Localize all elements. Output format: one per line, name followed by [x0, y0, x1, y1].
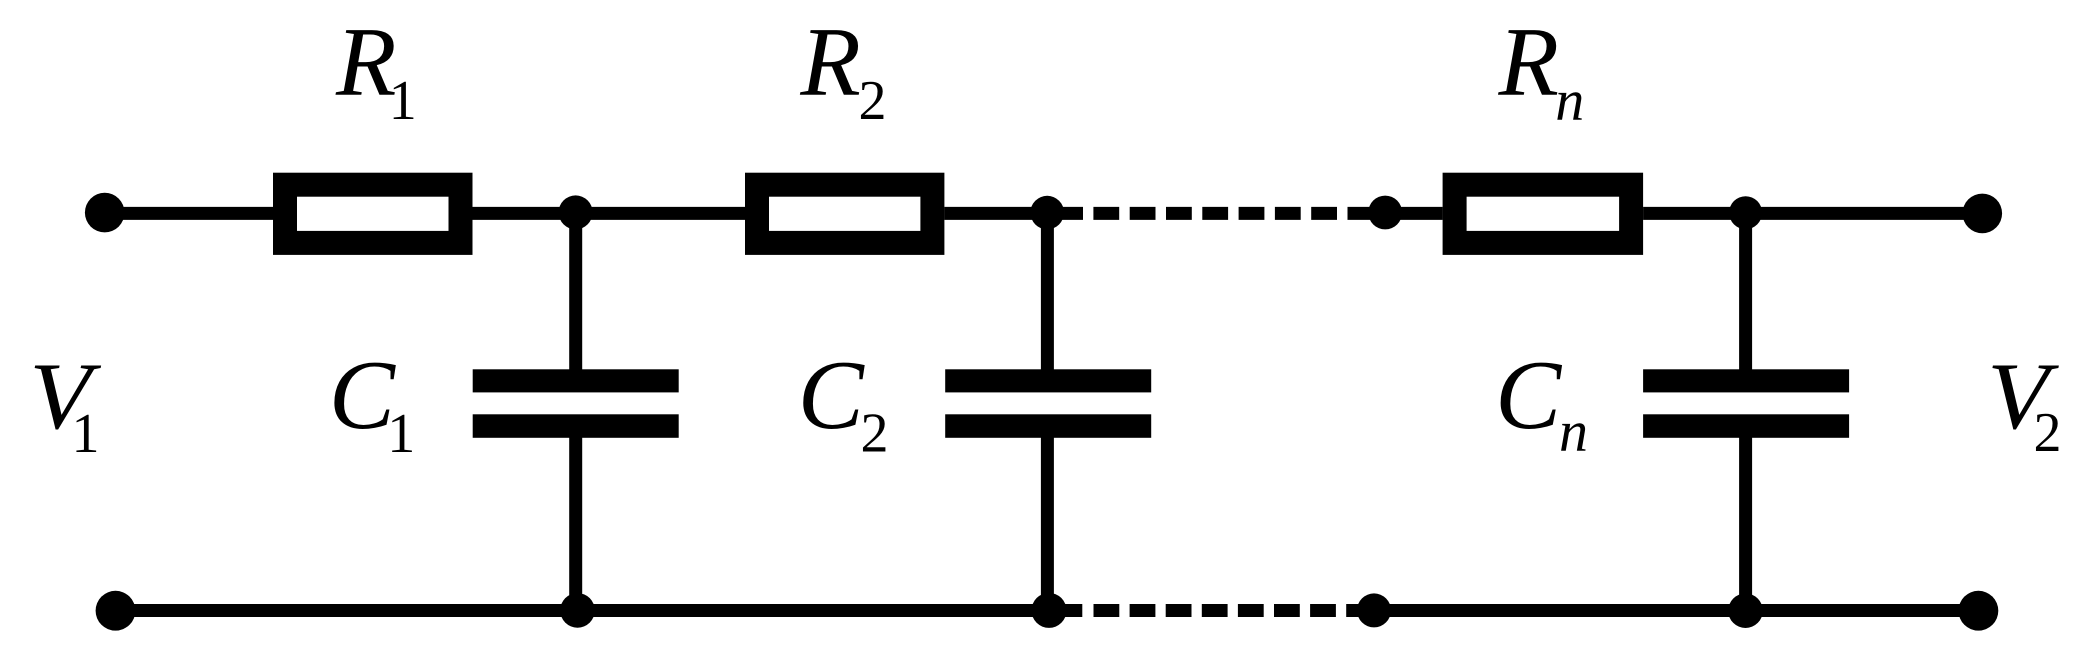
- svg-text:C: C: [1495, 341, 1562, 450]
- svg-text:2: 2: [2034, 402, 2062, 464]
- svg-text:1: 1: [387, 403, 415, 465]
- svg-text:C: C: [798, 341, 865, 450]
- svg-text:R: R: [335, 8, 396, 117]
- svg-text:R: R: [1498, 8, 1559, 117]
- svg-text:1: 1: [72, 403, 100, 465]
- svg-text:2: 2: [859, 70, 887, 132]
- svg-text:n: n: [1555, 68, 1584, 133]
- svg-text:R: R: [799, 8, 860, 117]
- svg-text:1: 1: [389, 70, 417, 132]
- svg-text:n: n: [1559, 399, 1588, 464]
- svg-text:2: 2: [861, 403, 889, 465]
- svg-text:C: C: [329, 341, 396, 450]
